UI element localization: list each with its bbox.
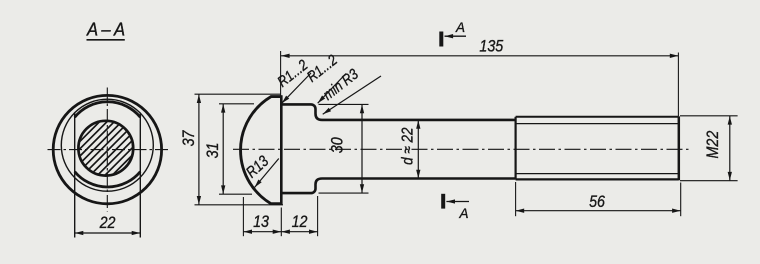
dimensions 13 and 12 (head and sub-head thickness) — [243, 196, 317, 236]
svg-text:135: 135 — [479, 37, 503, 55]
dimension 30 (sub-head height) — [319, 104, 369, 193]
svg-text:30: 30 — [328, 137, 346, 153]
main view: head bearing face — [280, 95, 283, 205]
leader R1...2 (subhead corner fillet) — [303, 51, 346, 103]
cutting plane mark A (bottom) — [443, 194, 469, 221]
svg-text:A: A — [459, 205, 469, 221]
leader R1...2 (head-to-subhead fillet) — [274, 56, 311, 104]
main view: sub-head top edge with fillets — [281, 104, 515, 120]
dimension 22 (across flats) — [75, 214, 141, 233]
dimension d~22 (shank diameter) — [400, 120, 419, 178]
svg-text:37: 37 — [180, 129, 198, 146]
svg-text:A – A: A – A — [86, 19, 125, 40]
dimension 31 — [204, 104, 254, 194]
svg-text:12: 12 — [292, 213, 308, 231]
svg-text:22: 22 — [99, 214, 116, 232]
svg-text:31: 31 — [204, 143, 222, 159]
dimension M22 (thread) — [680, 116, 738, 181]
dimension 37 (head diameter) — [180, 94, 283, 205]
cutting plane mark A (top) — [441, 18, 466, 46]
main view: thread run-out line — [514, 117, 516, 180]
svg-text:M22: M22 — [704, 130, 722, 158]
main view: thread root lines (thin) — [517, 124, 679, 174]
section view: sub-head flats / extension lines for dim 22 — [75, 113, 141, 238]
section view: hatched shank circle d22 — [36, 120, 175, 178]
svg-text:A: A — [455, 18, 465, 34]
dimension 56 (thread length) — [516, 182, 681, 216]
view title A-A — [86, 19, 125, 40]
section view: horizontal centre line — [48, 149, 169, 151]
section view: oval sub-head outline (arcs) — [75, 102, 141, 187]
main view: mushroom head outline R13 — [241, 97, 282, 204]
svg-text:13: 13 — [253, 213, 269, 231]
dimension 135 (bolt length) — [281, 37, 679, 116]
section view: thin head face circle — [61, 99, 153, 191]
main view: bolt end face — [678, 116, 681, 180]
leader R13 (head radius) — [243, 153, 279, 188]
section view: vertical centre line — [106, 88, 108, 212]
main view: sub-head bottom edge with fillets — [281, 179, 515, 194]
svg-text:56: 56 — [589, 193, 605, 211]
leader min R3 (shank fillet) — [319, 65, 381, 114]
main view: bolt axis centre line — [233, 148, 691, 150]
svg-text:d ≈ 22: d ≈ 22 — [400, 128, 417, 165]
section view A-A : head outer circle — [53, 95, 161, 203]
main view: thread crest lines — [516, 117, 679, 180]
